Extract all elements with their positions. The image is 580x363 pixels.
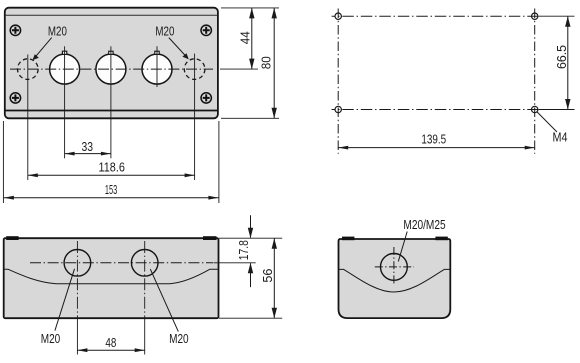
view A: mounting hole 3 (with notch)	[142, 51, 172, 84]
view A: bottom lid line	[5, 110, 218, 112]
view C: leader M20 right	[150, 269, 178, 332]
view D: horizontal center line	[375, 266, 414, 268]
view A: screw bottom-left	[10, 93, 20, 103]
view B: dim 66.5	[539, 16, 575, 109]
view D: gland hole	[381, 254, 408, 281]
view A: leader M20 left	[32, 38, 51, 61]
view D: vertical center line	[393, 247, 395, 284]
svg-text:153: 153	[105, 183, 117, 197]
view B: drilling plan center line top	[332, 15, 542, 17]
view C: gland hole left	[64, 249, 91, 276]
svg-text:118.6: 118.6	[99, 161, 125, 175]
view A: dim 153	[3, 121, 219, 203]
view A: dim 118.6	[28, 161, 195, 178]
view A: dim 33	[65, 140, 111, 156]
svg-text:M4: M4	[553, 131, 568, 145]
view A: dim 80	[221, 8, 279, 118]
view A: leader M20 right	[169, 38, 189, 60]
view A: screw top-left	[10, 25, 20, 35]
view C: dim 17.8	[214, 215, 283, 287]
view D: recess curve	[339, 269, 451, 292]
view D: tab left	[342, 237, 354, 241]
view B: drilling plan center line left	[337, 9, 339, 154]
view C: bottom view body	[4, 238, 219, 318]
svg-text:M20: M20	[48, 24, 67, 38]
view A: dim 44	[220, 8, 279, 69]
view C: horizontal center line	[30, 262, 213, 264]
svg-text:139.5: 139.5	[421, 132, 446, 146]
view A: screw top-right	[201, 25, 211, 35]
view A: vertical center line knockout right	[194, 54, 196, 180]
view A: horizontal center line	[10, 68, 213, 70]
view B: leader M4	[537, 112, 557, 132]
view B: dim 139.5	[338, 132, 535, 149]
svg-text:44: 44	[239, 31, 253, 44]
view C: leader M20 left	[55, 269, 75, 331]
view A: knockout M20 left (dashed circle)	[18, 59, 39, 80]
view C: recess curve	[4, 269, 219, 284]
svg-text:M20: M20	[41, 332, 61, 346]
view A: screw bottom-right	[201, 93, 211, 103]
svg-text:56: 56	[261, 269, 275, 283]
view A: vertical center line knockout left	[27, 55, 29, 181]
svg-text:M20/M25: M20/M25	[403, 218, 445, 232]
svg-text:80: 80	[260, 56, 274, 69]
view B: drill hole bottom-left	[335, 106, 341, 112]
svg-text:M20: M20	[155, 24, 174, 38]
view B: drill hole bottom-right	[532, 106, 538, 112]
view C: gland hole right	[131, 249, 158, 276]
view B: drilling plan center line bottom	[332, 109, 542, 111]
view D: leader M20/M25	[398, 232, 407, 262]
view D: tab right	[435, 237, 447, 241]
view A: knockout M20 right (dashed circle)	[184, 59, 205, 80]
view A: mounting hole 1 (with notch)	[50, 51, 80, 84]
svg-text:48: 48	[105, 336, 116, 350]
svg-text:33: 33	[81, 140, 93, 154]
svg-text:66.5: 66.5	[555, 45, 569, 69]
view A: vertical center line hole 1	[64, 46, 66, 158]
view C: vertical center line left hole	[76, 241, 78, 355]
view A: top lid line	[5, 14, 218, 16]
view A: front view body	[5, 8, 218, 119]
svg-text:17.8: 17.8	[237, 240, 251, 260]
view A: vertical center line hole 3	[156, 46, 158, 87]
view A: vertical center line hole 2	[110, 46, 112, 158]
view C: tab left	[6, 236, 18, 240]
view A: mounting hole 2 (with notch)	[96, 51, 126, 84]
view D: side view body	[339, 239, 451, 318]
view C: dim 48	[77, 336, 144, 352]
view C: dim 56	[219, 238, 282, 318]
view B: drill hole top-right	[532, 13, 538, 19]
svg-text:M20: M20	[169, 332, 189, 346]
view B: drilling plan center line right	[534, 9, 536, 154]
view B: drill hole top-left	[335, 13, 341, 19]
view C: vertical center line right hole	[144, 241, 146, 355]
view C: tab right	[203, 236, 217, 240]
